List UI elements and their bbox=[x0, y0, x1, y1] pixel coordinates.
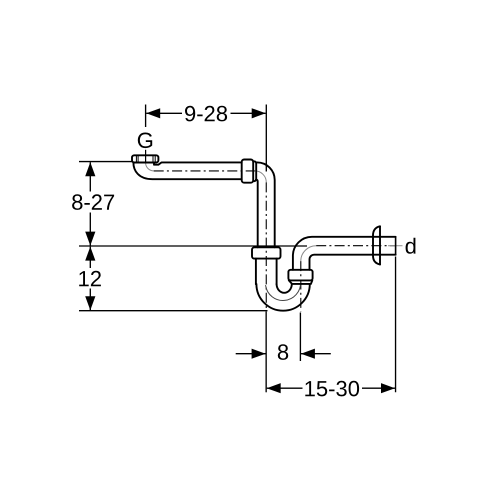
arrow 8 right (points left) bbox=[301, 349, 315, 359]
trap tube left edge bbox=[255, 259, 257, 285]
coupling nut on top pipe bbox=[242, 160, 254, 183]
text 8-27 bbox=[72, 194, 114, 210]
U-bend wall line (thin) bbox=[266, 282, 301, 300]
centerline top pipe bbox=[154, 170, 255, 172]
extension line: outlet centerline level (8-27 / 12 boundary) bbox=[79, 245, 307, 247]
flange nut facet lines bbox=[136, 156, 155, 163]
dimension line 15-30 bbox=[267, 387, 303, 389]
text 15-30 bbox=[305, 381, 359, 397]
top pipe top edge with step under flange bbox=[154, 162, 242, 164]
trap tube right edge bbox=[276, 259, 278, 285]
dimension line 8-27 bbox=[89, 162, 91, 191]
arrow 9-28 left bbox=[146, 108, 160, 118]
text 9-28 bbox=[185, 106, 227, 122]
dimension line 12 bbox=[89, 247, 91, 268]
arrow 15-30 right bbox=[381, 383, 395, 393]
wall flange face bbox=[379, 226, 381, 264]
outlet pipe end cap bbox=[395, 237, 397, 255]
arrow 8 left (points right) bbox=[252, 349, 266, 359]
centerline outlet pipe bbox=[316, 245, 395, 247]
extension line: trap bottom level (bottom of 12) bbox=[79, 310, 268, 312]
riser left edge and outlet elbow outer arc, outlet top edge bbox=[293, 237, 396, 270]
centerline riser bbox=[300, 261, 302, 311]
text 8 bbox=[278, 344, 288, 360]
wall flange bulge bbox=[373, 226, 380, 264]
arrow 8-27 top bbox=[85, 162, 95, 176]
extension line: left of 9-28 (G centerline) bbox=[145, 105, 147, 128]
extension line: wall / pipe end (right of 15-30) bbox=[395, 257, 397, 393]
centerline inlet tailpipe/trap bbox=[265, 182, 267, 311]
extension line: right of 9-28 (inlet pipe centerline) bbox=[265, 105, 267, 172]
arrow 12 bottom bbox=[85, 296, 95, 310]
dimension line 9-28 bbox=[146, 112, 182, 114]
arrow 8-27 bottom bbox=[85, 232, 95, 246]
centerline arc flange-to-horizontal bbox=[146, 163, 154, 171]
trap inlet nut bbox=[252, 247, 281, 258]
centerline riser arc bbox=[301, 246, 316, 261]
U-bend outer arc bbox=[256, 284, 309, 311]
top elbow outer arc and tailpipe right edge bbox=[257, 162, 275, 247]
extension line: flange seat level (top of 8-27) bbox=[79, 161, 133, 163]
dimension line 8 (outside stubs) bbox=[236, 353, 266, 355]
extension line: trap outlet riser centerline (right of 8) bbox=[299, 313, 301, 362]
arrow 15-30 left bbox=[267, 383, 281, 393]
extension line: trap inlet centerline (left of 8 and 15-30) bbox=[265, 312, 267, 393]
arrow 9-28 right bbox=[252, 108, 266, 118]
top elbow inner arc and tailpipe left edge bbox=[256, 180, 258, 248]
top pipe bottom edge with bend from flange bbox=[133, 163, 241, 180]
riser right edge and outlet elbow inner arc, outlet bottom edge bbox=[310, 255, 396, 270]
text 12 bbox=[79, 271, 101, 286]
text d bbox=[406, 238, 416, 254]
text G bbox=[138, 133, 152, 149]
inlet flange nut (G connection) bbox=[132, 155, 158, 162]
arrow 12 top bbox=[85, 247, 95, 261]
trap outlet nut body bbox=[288, 270, 312, 281]
centerline tick through inlet flange (G axis) bbox=[145, 150, 147, 163]
centerline arc top elbow bbox=[255, 171, 266, 183]
coupling nut step (right collar) bbox=[253, 161, 256, 181]
U-bend inner arc bbox=[277, 284, 292, 293]
centerline outlet overhang (grey) bbox=[388, 245, 403, 247]
trap outlet nut lip bbox=[289, 280, 313, 284]
